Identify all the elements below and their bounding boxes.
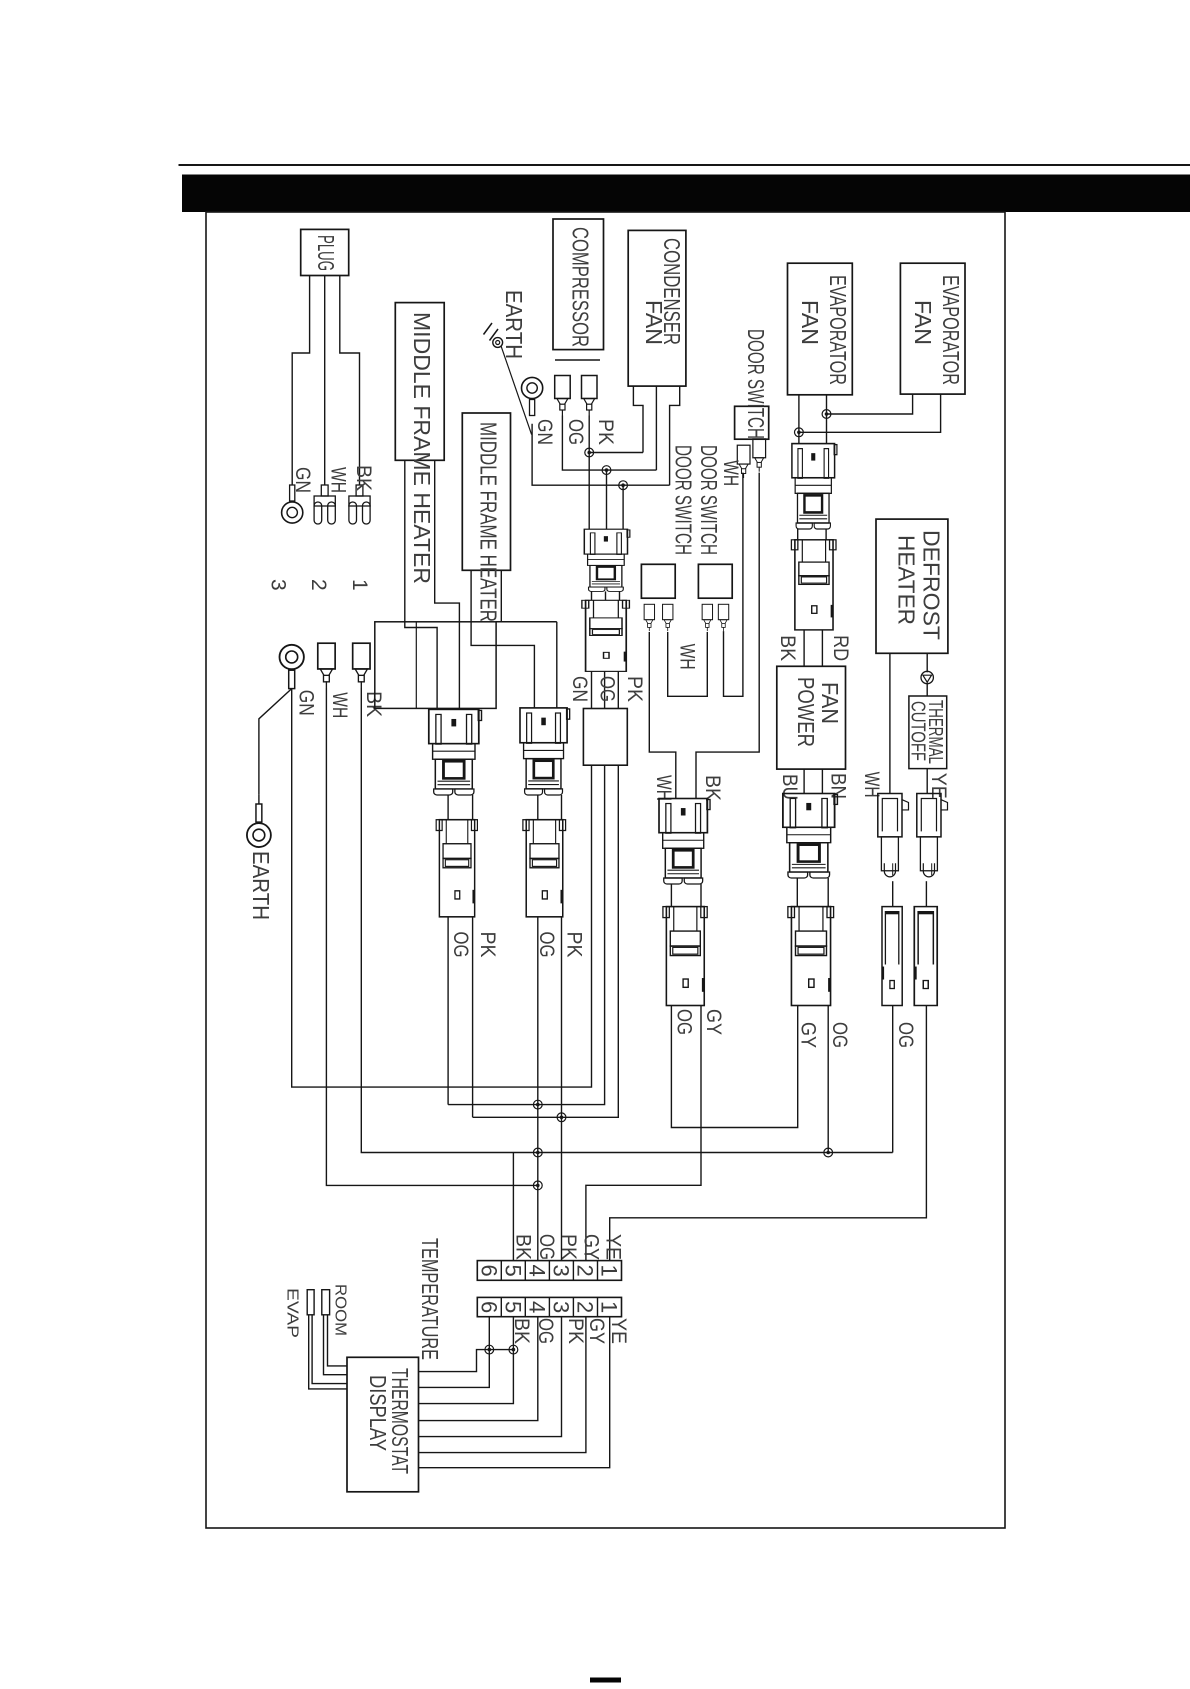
svg-text:RD: RD bbox=[829, 635, 852, 661]
component box MIDDLE FRAME HEATER 2 bbox=[462, 413, 510, 570]
wire OG compressor bbox=[562, 416, 656, 471]
svg-text:PK: PK bbox=[563, 932, 586, 958]
component box THERMOSTAT DISPLAY bbox=[347, 1357, 419, 1492]
wire stub single WH bbox=[892, 881, 894, 906]
wire GN mains to compressor-harness bbox=[292, 689, 592, 1088]
svg-text:GN: GN bbox=[295, 690, 318, 716]
wire condenser fan lead 2 bbox=[655, 386, 657, 470]
connector female door harness bbox=[663, 907, 707, 1006]
svg-text:OG: OG bbox=[596, 676, 619, 702]
wire stub single YE bbox=[925, 881, 927, 906]
wire row2 cell4 bbox=[419, 1317, 538, 1421]
wire plug GN bbox=[292, 276, 309, 486]
svg-text:PLUG: PLUG bbox=[313, 235, 339, 271]
svg-text:FAN: FAN bbox=[797, 300, 823, 345]
component box EVAPORATOR FAN 1 bbox=[788, 263, 853, 395]
wire evap fan1 lead B bbox=[826, 395, 828, 444]
svg-text:GY: GY bbox=[702, 1009, 725, 1035]
svg-text:WH: WH bbox=[327, 467, 350, 493]
label CONDENSER FAN bbox=[641, 238, 685, 345]
node evap JA bbox=[822, 410, 831, 419]
spade terminal door switchA right bbox=[663, 604, 673, 631]
svg-text:POWER: POWER bbox=[793, 677, 819, 747]
svg-text:FAN: FAN bbox=[910, 300, 936, 345]
svg-text:YE: YE bbox=[607, 1318, 630, 1344]
label EVAPORATOR FAN 1 bbox=[797, 275, 851, 385]
wire row2 cell3 bbox=[419, 1317, 562, 1437]
connector male door harness bbox=[659, 799, 710, 885]
svg-text:PK: PK bbox=[564, 1318, 587, 1344]
label BK plug lead bbox=[352, 465, 375, 491]
connector male fan power bbox=[783, 794, 838, 878]
label FAN POWER bbox=[793, 677, 843, 747]
connector female heater pair2 bbox=[523, 820, 566, 917]
svg-text:OG: OG bbox=[673, 1009, 696, 1035]
label GN compressor earth bbox=[533, 419, 556, 445]
label OG door harness bbox=[673, 1009, 696, 1035]
svg-text:GY: GY bbox=[797, 1022, 820, 1048]
label terminal position 1 bbox=[348, 579, 371, 591]
svg-text:2: 2 bbox=[573, 1265, 598, 1277]
svg-text:GN: GN bbox=[291, 467, 314, 493]
svg-text:2: 2 bbox=[307, 579, 330, 591]
wire row2 cell2 bbox=[419, 1317, 586, 1453]
svg-text:5: 5 bbox=[500, 1265, 525, 1277]
label EVAP bbox=[283, 1288, 300, 1338]
svg-text:CUTOFF: CUTOFF bbox=[907, 701, 929, 761]
wire condenser fan lead 3 bbox=[670, 386, 680, 485]
ring terminal GN compressor earth bbox=[522, 377, 543, 415]
wire plug WH bbox=[324, 276, 326, 486]
wire condenser fan lead 1 bbox=[633, 386, 643, 452]
label GN mains bbox=[295, 690, 318, 716]
svg-text:4: 4 bbox=[524, 1301, 549, 1313]
svg-text:BU: BU bbox=[778, 774, 801, 800]
svg-text:TEMPERATURE: TEMPERATURE bbox=[417, 1238, 443, 1360]
label WH door switch1 bbox=[719, 460, 742, 486]
junction frame box bbox=[375, 622, 557, 709]
wire row2 cell6 bbox=[419, 1317, 490, 1388]
fork terminal WH (plug lead) bbox=[314, 485, 335, 524]
wire thermal circle to cutoff bbox=[926, 683, 928, 696]
label TEMPERATURE bbox=[417, 1238, 443, 1360]
top horizontal rule bbox=[179, 164, 1190, 166]
label terminal position 3 bbox=[267, 579, 290, 591]
svg-text:OG: OG bbox=[894, 1022, 917, 1048]
spade terminal door switchA left bbox=[644, 604, 654, 631]
label THERMOSTAT DISPLAY bbox=[365, 1368, 413, 1474]
svg-text:EVAPORATOR: EVAPORATOR bbox=[938, 275, 964, 385]
ring terminal GN (plug lead) bbox=[282, 485, 303, 523]
svg-text:DOOR SWITCH: DOOR SWITCH bbox=[743, 329, 769, 439]
label ROOM bbox=[332, 1284, 349, 1336]
svg-text:DOOR SWITCH: DOOR SWITCH bbox=[671, 445, 697, 555]
labels row1 wire colours bbox=[512, 1234, 625, 1260]
svg-text:ROOM: ROOM bbox=[332, 1284, 349, 1336]
svg-text:WH: WH bbox=[652, 775, 675, 801]
svg-text:OG: OG bbox=[828, 1022, 851, 1048]
spade terminal door switch1 right bbox=[753, 439, 766, 472]
connector male single YE bbox=[917, 794, 948, 877]
wires sensor ROOM bbox=[324, 1315, 348, 1375]
label DOOR SWITCH line2 bbox=[671, 445, 697, 555]
wire compressor earth to junction bbox=[532, 424, 670, 486]
node BK-OG run crossing bbox=[533, 1148, 542, 1157]
fork terminal BK (plug lead) bbox=[349, 485, 370, 524]
wire pair1 PK bbox=[472, 917, 474, 1118]
ring terminal GN (mains side) bbox=[280, 645, 304, 689]
spade terminal OG compressor bbox=[555, 376, 571, 416]
svg-text:DOOR SWITCH: DOOR SWITCH bbox=[696, 445, 722, 555]
svg-text:BK: BK bbox=[776, 635, 799, 661]
wire defrost YE lead bbox=[926, 653, 928, 672]
wire stubs pair1 bbox=[448, 795, 473, 820]
label EVAPORATOR FAN 2 bbox=[910, 275, 964, 385]
svg-text:EVAP: EVAP bbox=[283, 1288, 300, 1338]
wire pair2 PK to terminal 3 bbox=[561, 917, 563, 1261]
wire pair2 OG to terminal 4 bbox=[537, 917, 539, 1261]
connector female evaporator fans bbox=[791, 540, 836, 630]
svg-text:WH: WH bbox=[676, 644, 699, 670]
terminal strip row1 bbox=[476, 1261, 621, 1281]
label OG pair1 bbox=[449, 932, 472, 958]
label terminal position 2 bbox=[307, 579, 330, 591]
wire row2 cell1 bbox=[419, 1317, 610, 1468]
svg-text:DISPLAY: DISPLAY bbox=[365, 1375, 391, 1451]
svg-text:PK: PK bbox=[594, 419, 617, 445]
label PK pair1 bbox=[476, 932, 499, 958]
svg-text:3: 3 bbox=[267, 579, 290, 591]
label GY door harness bbox=[702, 1009, 725, 1035]
wire plug BK bbox=[340, 276, 360, 486]
svg-text:WH: WH bbox=[328, 692, 351, 718]
wire WH mains to node bbox=[326, 688, 537, 1185]
terminal strip row2 bbox=[476, 1297, 621, 1316]
wire stubs door harness pair bbox=[671, 884, 701, 907]
wire junction J2 branch bbox=[606, 470, 608, 529]
connector male heater pair2 bbox=[520, 708, 570, 795]
connector female heater pair1 bbox=[436, 820, 477, 917]
svg-text:EARTH: EARTH bbox=[501, 290, 527, 359]
svg-text:HEATER: HEATER bbox=[894, 535, 920, 625]
component box MIDDLE FRAME HEATER 1 bbox=[395, 303, 444, 461]
wire stubs fan power pair bbox=[797, 878, 828, 907]
wire fan power GY bbox=[671, 1006, 797, 1128]
svg-text:BK: BK bbox=[352, 465, 375, 491]
wire fan power OG bbox=[827, 1006, 829, 1153]
wire defrost WH lead bbox=[889, 653, 891, 793]
label PK compressor bbox=[594, 419, 617, 445]
svg-text:OG: OG bbox=[535, 1234, 558, 1260]
spade terminal PK compressor bbox=[582, 376, 598, 416]
footer page mark bbox=[590, 1678, 621, 1683]
connector female single YE bbox=[914, 907, 937, 1006]
label OG compressor bbox=[564, 419, 587, 445]
svg-text:6: 6 bbox=[476, 1265, 501, 1277]
wire harness OG to run bbox=[448, 765, 605, 1104]
svg-text:EVAPORATOR: EVAPORATOR bbox=[825, 275, 851, 385]
svg-text:OG: OG bbox=[535, 932, 558, 958]
wires fan power out bbox=[804, 769, 822, 793]
node J1 bbox=[585, 448, 594, 457]
wire stubs male-female compressor bbox=[592, 591, 620, 600]
svg-text:OG: OG bbox=[449, 932, 472, 958]
label OG single bbox=[894, 1022, 917, 1048]
svg-text:BK: BK bbox=[362, 691, 385, 717]
wire harness PK to run bbox=[473, 765, 619, 1117]
label MIDDLE FRAME HEATER 2 bbox=[476, 422, 502, 622]
node PK run pair1 bbox=[557, 1113, 566, 1122]
spade terminal door switch1 left bbox=[737, 445, 750, 478]
svg-text:5: 5 bbox=[500, 1301, 525, 1313]
wire earth branch bbox=[259, 689, 292, 795]
svg-text:3: 3 bbox=[548, 1265, 573, 1277]
node cell6 link B bbox=[509, 1345, 518, 1354]
wire evap fan2 lead A bbox=[827, 394, 913, 414]
component box CONDENSER FAN bbox=[628, 230, 686, 386]
component box door switch B bbox=[698, 564, 732, 598]
node OG fanpower run bbox=[824, 1148, 833, 1157]
svg-text:4: 4 bbox=[524, 1265, 549, 1277]
svg-text:COMPRESSOR: COMPRESSOR bbox=[568, 227, 594, 347]
svg-text:PK: PK bbox=[623, 676, 646, 702]
svg-text:2: 2 bbox=[573, 1301, 598, 1313]
node J2 bbox=[602, 466, 611, 475]
label DOOR SWITCH line1 bbox=[696, 445, 722, 555]
label EARTH top bbox=[501, 290, 527, 359]
wire door switch1 left bbox=[724, 473, 743, 697]
junction box compressor harness bbox=[583, 709, 627, 766]
svg-text:1: 1 bbox=[597, 1265, 622, 1277]
wire frame box feed to connector bbox=[556, 622, 558, 708]
wire PK compressor bbox=[588, 416, 590, 530]
svg-text:BK: BK bbox=[701, 775, 724, 801]
sensor EVAP bbox=[307, 1290, 314, 1315]
label WH mains bbox=[328, 692, 351, 718]
label DEFROST HEATER bbox=[894, 530, 945, 640]
label WH connector bbox=[652, 775, 675, 801]
wire single WH to OG run bbox=[892, 1006, 894, 1153]
label MIDDLE FRAME HEATER 1 bbox=[409, 312, 435, 584]
wire door switchA-B link bbox=[668, 632, 708, 696]
wire heater2 lead B bbox=[500, 570, 502, 622]
svg-text:PK: PK bbox=[557, 1234, 580, 1260]
wire row2 cell5 bbox=[419, 1317, 514, 1404]
wire heater1 lead B bbox=[435, 460, 460, 709]
svg-text:1: 1 bbox=[348, 579, 371, 591]
spade terminal BK (mains side) bbox=[353, 643, 370, 688]
wires sensor EVAP bbox=[309, 1315, 347, 1389]
label GN plug lead bbox=[291, 467, 314, 493]
svg-text:6: 6 bbox=[476, 1301, 501, 1313]
spade terminal WH (mains side) bbox=[318, 643, 335, 688]
label BK connector bbox=[701, 775, 724, 801]
wire cell6 link bbox=[419, 1350, 514, 1372]
label YE thermal bbox=[927, 773, 950, 799]
svg-text:1: 1 bbox=[597, 1301, 622, 1313]
component box door switch A bbox=[641, 564, 675, 598]
black title bar bbox=[182, 175, 1190, 213]
wires evap female to fan power bbox=[804, 630, 822, 666]
label BU fan power out bbox=[778, 774, 801, 800]
label DOOR SWITCH 1 bbox=[743, 329, 769, 439]
wires female compressor to junction box bbox=[592, 671, 619, 708]
wire BK mains long run bbox=[361, 688, 892, 1153]
wire door harness GY to terminal 2 bbox=[586, 1006, 701, 1261]
label GY below fan power pair bbox=[797, 1022, 820, 1048]
svg-text:YE: YE bbox=[927, 773, 950, 799]
connector female fan power bbox=[788, 907, 834, 1006]
wire heater1 lead A bbox=[405, 460, 437, 709]
wire evap fan1 lead A bbox=[798, 395, 800, 444]
node J3 bbox=[619, 481, 628, 490]
connector female single WH bbox=[882, 907, 902, 1006]
connector male heater pair1 bbox=[429, 709, 482, 795]
svg-text:FAN: FAN bbox=[641, 300, 667, 345]
spade terminal door switchB right bbox=[718, 604, 728, 631]
label OG compressor harness bbox=[596, 676, 619, 702]
label PK pair2 bbox=[563, 932, 586, 958]
label WH door switch2 bbox=[676, 644, 699, 670]
label COMPRESSOR bbox=[568, 227, 594, 347]
label GN compressor harness bbox=[568, 676, 591, 702]
node WH run end bbox=[533, 1181, 542, 1190]
wire single YE run to terminal 1 bbox=[610, 1006, 927, 1261]
connector male compressor bbox=[584, 529, 630, 591]
svg-text:MIDDLE FRAME HEATER: MIDDLE FRAME HEATER bbox=[476, 422, 502, 622]
ring terminal EARTH (bottom) bbox=[258, 794, 260, 804]
labels row2 wire colours bbox=[510, 1318, 630, 1344]
node cell6 link A bbox=[485, 1345, 494, 1354]
label OG pair2 bbox=[535, 932, 558, 958]
wire pair1 OG bbox=[447, 917, 449, 1105]
wire evap fan2 lead B bbox=[799, 394, 941, 432]
sensor ROOM bbox=[322, 1290, 330, 1315]
label EARTH bottom bbox=[248, 851, 274, 920]
label THERMAL CUTOFF bbox=[907, 700, 947, 764]
node OG run pair1 bbox=[533, 1100, 542, 1109]
svg-text:BK: BK bbox=[512, 1234, 535, 1260]
earth symbol bbox=[484, 323, 532, 435]
wire stubs evap pair bbox=[798, 529, 826, 540]
svg-text:DEFROST: DEFROST bbox=[919, 530, 945, 640]
wire stubs pair2 bbox=[538, 795, 562, 820]
svg-text:EARTH: EARTH bbox=[248, 851, 274, 920]
svg-text:GN: GN bbox=[568, 676, 591, 702]
svg-text:GY: GY bbox=[580, 1234, 603, 1260]
svg-text:YE: YE bbox=[602, 1234, 625, 1260]
svg-text:PK: PK bbox=[476, 932, 499, 958]
label OG below fan power pair bbox=[828, 1022, 851, 1048]
component box COMPRESSOR bbox=[553, 219, 604, 360]
wire junction J3 branch bbox=[622, 485, 624, 529]
svg-text:GY: GY bbox=[585, 1318, 608, 1344]
wire door switchA left to connector WH bbox=[649, 632, 676, 799]
thermal fuse circle bbox=[921, 671, 933, 683]
wire junction J1 branch bbox=[589, 452, 643, 454]
label RD fan power in bbox=[829, 635, 852, 661]
wire heater2 lead A bbox=[471, 570, 534, 708]
diagram outer border bbox=[206, 212, 1005, 1528]
wire cutoff out bbox=[926, 769, 928, 794]
label WH plug lead bbox=[327, 467, 350, 493]
connector male single WH bbox=[878, 794, 909, 877]
component box FAN POWER bbox=[777, 666, 846, 769]
svg-text:GN: GN bbox=[533, 419, 556, 445]
label BK mains bbox=[362, 691, 385, 717]
spade terminal door switchB left bbox=[702, 604, 712, 631]
component box DEFROST HEATER bbox=[876, 519, 948, 653]
component box THERMAL CUTOFF bbox=[909, 696, 947, 769]
svg-text:OG: OG bbox=[564, 419, 587, 445]
svg-text:FAN: FAN bbox=[817, 682, 843, 724]
wire branch BK run to terminal 5 bbox=[512, 1153, 514, 1261]
label PK compressor harness bbox=[623, 676, 646, 702]
connector male evaporator fans bbox=[792, 444, 837, 529]
label WH defrost bbox=[860, 772, 883, 798]
component box EVAPORATOR FAN 2 bbox=[900, 263, 965, 394]
node evap JB bbox=[795, 428, 804, 437]
wire door switch1 right bbox=[696, 473, 759, 799]
connector female compressor bbox=[582, 600, 630, 671]
component box DOOR SWITCH 1 bbox=[735, 406, 769, 439]
label BK fan power in bbox=[776, 635, 799, 661]
svg-text:3: 3 bbox=[548, 1301, 573, 1313]
svg-text:MIDDLE FRAME HEATER: MIDDLE FRAME HEATER bbox=[409, 312, 435, 584]
component box PLUG bbox=[301, 229, 349, 275]
label BN fan power out bbox=[827, 773, 850, 799]
